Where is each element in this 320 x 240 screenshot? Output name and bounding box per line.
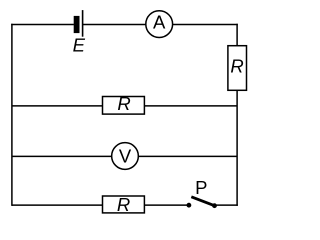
battery E	[74, 10, 83, 37]
wire: right vertical lower	[236, 90, 238, 206]
svg-text:P: P	[195, 177, 207, 198]
svg-text:E: E	[73, 35, 86, 56]
wire: left vertical	[11, 24, 13, 206]
resistor R2 (second branch)	[103, 93, 145, 114]
svg-text:A: A	[153, 12, 166, 33]
resistor R3 (bottom branch)	[103, 194, 145, 215]
wire: bottom left segment	[12, 204, 103, 206]
wire: second branch left segment	[12, 105, 103, 107]
svg-text:R: R	[230, 56, 243, 77]
wire: right vertical upper	[236, 24, 238, 47]
wire: battery to ammeter	[83, 24, 146, 26]
wire: bottom resistor to switch	[144, 204, 189, 206]
svg-text:R: R	[117, 194, 130, 215]
wire: top-left corner to battery	[11, 24, 74, 26]
wire: switch to bottom-right corner	[215, 204, 238, 206]
wire: ammeter to top-right corner	[173, 24, 238, 26]
wire: third branch right segment	[138, 155, 237, 157]
switch P	[187, 197, 217, 208]
voltmeter V	[112, 143, 139, 170]
svg-text:R: R	[117, 93, 130, 114]
wire: third branch left segment	[12, 155, 112, 157]
svg-text:V: V	[119, 146, 132, 167]
wire: second branch right segment	[144, 105, 237, 107]
ammeter A	[146, 11, 173, 38]
resistor R1 (right branch)	[228, 46, 247, 91]
